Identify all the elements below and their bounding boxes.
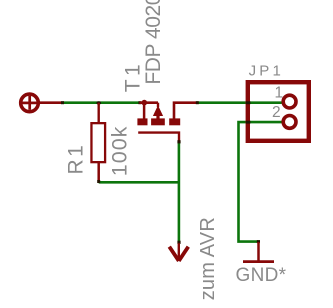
svg-text:2: 2 bbox=[272, 104, 281, 121]
svg-text:zum AVR: zum AVR bbox=[197, 217, 219, 300]
svg-text:GND*: GND* bbox=[236, 265, 287, 286]
svg-text:1: 1 bbox=[275, 84, 284, 101]
T1 gate line bbox=[138, 133, 179, 142]
svg-text:JP1: JP1 bbox=[249, 62, 284, 79]
wire blob at arrow top bbox=[177, 241, 180, 244]
T1 right (drain) lead bbox=[174, 103, 198, 119]
node at R1 top bbox=[96, 101, 101, 104]
off-page arrow stem bbox=[178, 243, 180, 259]
supply +V symbol bbox=[21, 94, 39, 112]
off-page arrow head right stroke bbox=[179, 247, 189, 261]
svg-text:T1: T1 bbox=[121, 61, 144, 93]
junction dot on T1 source bbox=[142, 100, 148, 106]
T1 substrate arrow head bbox=[153, 105, 163, 116]
supply pin stub bbox=[40, 101, 64, 104]
wire gate net vertical to arrow bbox=[178, 142, 181, 242]
wire blob A bbox=[61, 101, 64, 104]
T1 left (source) lead bbox=[143, 103, 146, 119]
wire drain to JP1 pin1 bbox=[197, 101, 282, 104]
wire blob at GND bbox=[257, 240, 260, 243]
T1 channel pad left bbox=[137, 118, 147, 125]
connector JP1 box bbox=[248, 82, 309, 141]
svg-text:R1: R1 bbox=[64, 143, 87, 175]
resistor R1 body bbox=[91, 123, 105, 162]
svg-text:100k: 100k bbox=[107, 126, 131, 177]
T1 channel pad right bbox=[169, 118, 180, 125]
JP1 pin 1 circle bbox=[283, 95, 296, 108]
JP1 pin 2 circle bbox=[283, 116, 296, 129]
resistor R1 bottom lead bbox=[97, 163, 100, 181]
off-page arrow head left stroke bbox=[169, 247, 179, 261]
svg-text:FDP 4020: FDP 4020 bbox=[142, 0, 165, 85]
ground GND* stem bbox=[257, 242, 260, 262]
wire supply to T1 bbox=[63, 101, 140, 104]
ground GND* bar bbox=[243, 260, 274, 263]
transistor T1 internal source wire bbox=[140, 101, 159, 104]
wire blob at gate bbox=[177, 140, 180, 143]
resistor R1 top lead bbox=[97, 103, 99, 124]
wire blob at R1 bottom bbox=[97, 180, 100, 183]
wire R1 bottom to gate net bbox=[99, 181, 179, 184]
wire JP1 pin2 to GND bbox=[239, 122, 282, 242]
T1 substrate arrow stem bbox=[157, 103, 159, 107]
T1 channel pad middle bbox=[151, 118, 165, 125]
wire blob at box edge pin2 bbox=[246, 121, 251, 124]
wire blob at box edge pin1 bbox=[246, 101, 251, 104]
wire blob drain bbox=[196, 101, 199, 104]
T1 substrate lower stem bbox=[156, 116, 159, 120]
wire blob B bbox=[138, 101, 141, 104]
